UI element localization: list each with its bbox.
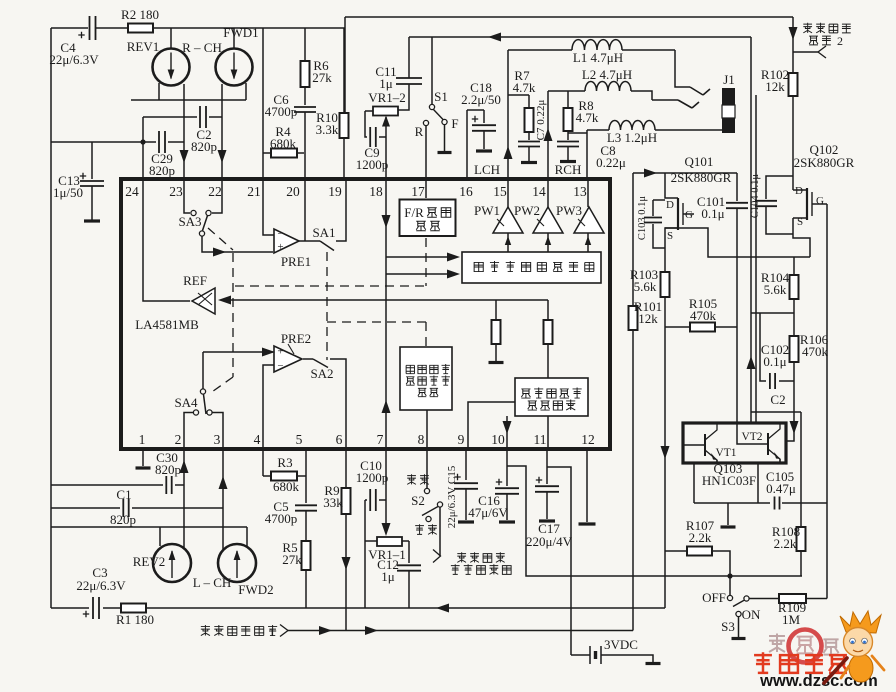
- capacitor C10: [356, 458, 389, 511]
- svg-text:820p: 820p: [149, 163, 175, 178]
- wire pin17 line: [425, 126, 427, 180]
- label C15: [446, 465, 458, 528]
- svg-text:F/R: F/R: [404, 205, 424, 220]
- terminal input 2: [793, 23, 851, 58]
- svg-text:VR1–2: VR1–2: [368, 90, 406, 105]
- wire regulator pin9: [468, 402, 515, 449]
- svg-text:13: 13: [573, 184, 587, 199]
- capacitor C16: [468, 449, 519, 522]
- svg-text:680k: 680k: [270, 136, 297, 151]
- svg-text:14: 14: [532, 184, 546, 199]
- svg-text:22μ/6.3V: 22μ/6.3V: [49, 52, 99, 67]
- svg-text:SA1: SA1: [312, 225, 335, 240]
- wire R102 to Q102: [792, 96, 794, 190]
- svg-text:5.6k: 5.6k: [764, 282, 787, 297]
- label C103: [637, 196, 648, 241]
- resistor R7: [508, 68, 536, 132]
- resistor R105: [665, 296, 737, 332]
- svg-text:27k: 27k: [282, 552, 302, 567]
- IC top pin numbers: [125, 184, 587, 199]
- svg-text:6: 6: [336, 432, 343, 447]
- resistor R4: [263, 124, 304, 158]
- wire R103 cont: [661, 327, 670, 551]
- svg-text:0.22μ: 0.22μ: [596, 155, 626, 170]
- ground C18: [476, 131, 492, 151]
- wire pin21 to PRE1 minus: [263, 180, 274, 235]
- wire pin16 line: [467, 110, 500, 180]
- wire rail B: [755, 95, 757, 423]
- wire left rail: [50, 28, 52, 608]
- svg-text:47μ/6V: 47μ/6V: [468, 505, 508, 520]
- amp PW2: [514, 180, 563, 233]
- svg-text:1M: 1M: [782, 612, 801, 627]
- wire VR1-1 left leg: [364, 500, 366, 608]
- transistor Q102: [793, 142, 855, 228]
- wire pin17 stub: [425, 181, 427, 198]
- wire pin8 line: [426, 449, 428, 488]
- svg-text:L – CH: L – CH: [193, 575, 232, 590]
- resistor R6: [301, 28, 333, 87]
- wire Q101 source: [665, 228, 810, 257]
- capacitor C8: [557, 131, 626, 170]
- resistor R103: [630, 248, 670, 297]
- svg-text:−: −: [277, 360, 283, 372]
- capacitor C18: [461, 80, 501, 131]
- wire SA2 to pin6: [330, 359, 346, 449]
- svg-text:S1: S1: [434, 89, 448, 104]
- svg-text:C2: C2: [770, 392, 785, 407]
- svg-text:1μ: 1μ: [381, 569, 395, 584]
- svg-text:S3: S3: [721, 619, 735, 634]
- capacitor C29: [149, 131, 175, 178]
- wire pin11 jog: [547, 467, 571, 655]
- svg-text:LA4581MB: LA4581MB: [135, 317, 199, 332]
- switch SA2: [310, 359, 333, 381]
- svg-text:+: +: [277, 346, 283, 358]
- svg-text:3: 3: [214, 432, 221, 447]
- svg-text:G: G: [816, 195, 824, 207]
- svg-text:23: 23: [169, 184, 183, 199]
- block audio preamp: [462, 252, 601, 283]
- switch SA1: [312, 225, 335, 251]
- svg-text:D: D: [666, 199, 674, 211]
- svg-text:27k: 27k: [312, 70, 332, 85]
- resistor R101: [629, 299, 663, 631]
- resistor R1: [103, 604, 306, 628]
- IC LA4581MB box: [121, 179, 610, 449]
- transistor Q101: [665, 154, 732, 248]
- ground S3: [732, 617, 746, 639]
- resistor internal 1: [489, 300, 504, 363]
- resistor R107: [665, 518, 730, 576]
- wire motor R-CH feed: [171, 28, 234, 49]
- capacitor C17: [526, 449, 573, 549]
- wire PRE2 out SA2: [303, 358, 313, 360]
- inductor L3: [587, 120, 722, 145]
- resistor R102: [761, 67, 798, 96]
- wire REF input: [218, 296, 548, 305]
- capacitor C15: [454, 449, 478, 522]
- wire input1 bus: [288, 626, 633, 635]
- capacitor C30: [51, 450, 184, 494]
- switch S1: [415, 89, 459, 139]
- svg-text:REF: REF: [183, 273, 207, 288]
- wire pin10 jog: [507, 466, 802, 579]
- svg-text:220μ/4V: 220μ/4V: [526, 534, 573, 549]
- svg-text:18: 18: [369, 184, 383, 199]
- block F/R control: [400, 200, 456, 237]
- wire pin18 internal: [382, 181, 391, 449]
- svg-text:12: 12: [581, 432, 595, 447]
- wire SA3 to PRE1: [202, 236, 273, 257]
- svg-text:4700p: 4700p: [265, 104, 298, 119]
- wire pin22 line: [218, 84, 227, 180]
- svg-text:1μ: 1μ: [379, 76, 393, 91]
- capacitor C3: [51, 565, 126, 619]
- motor REV2: [133, 544, 191, 582]
- svg-text:5.6k: 5.6k: [634, 279, 657, 294]
- terminal input 1: [201, 625, 288, 640]
- svg-text:5: 5: [296, 432, 303, 447]
- wire SA1 to pin19: [336, 180, 346, 241]
- svg-text:F: F: [451, 116, 458, 131]
- wire pin14 line: [544, 91, 553, 180]
- capacitor C5: [265, 499, 317, 526]
- svg-text:1: 1: [269, 625, 275, 639]
- inductor L1: [508, 40, 675, 65]
- wire pin18 line wiper: [382, 116, 390, 181]
- transistor Q103 box: [683, 423, 786, 488]
- svg-text:2: 2: [175, 432, 182, 447]
- resistor R104: [761, 257, 799, 299]
- wire Q102 source: [793, 218, 810, 257]
- svg-text:8: 8: [418, 432, 425, 447]
- wire preamp input 1: [386, 253, 460, 262]
- wire preamp input 2: [386, 270, 460, 279]
- svg-text:20: 20: [286, 184, 300, 199]
- svg-text:7: 7: [377, 432, 384, 447]
- svg-text:PRE2: PRE2: [281, 331, 311, 346]
- svg-text:ON: ON: [742, 607, 761, 622]
- svg-text:17: 17: [411, 184, 425, 199]
- svg-text:21: 21: [247, 184, 261, 199]
- resistor R10: [316, 28, 349, 138]
- wire S2 common: [439, 507, 441, 556]
- svg-text:J1: J1: [723, 72, 735, 87]
- op-amp PRE2: [274, 331, 311, 372]
- svg-text:4.7k: 4.7k: [513, 80, 536, 95]
- resistor R108: [772, 412, 806, 576]
- svg-text:12k: 12k: [765, 79, 785, 94]
- wire C29 link y142: [51, 139, 184, 144]
- svg-text:PW3: PW3: [556, 203, 582, 218]
- wire pin6 line: [342, 514, 351, 630]
- svg-text:OFF: OFF: [702, 590, 726, 605]
- jack J1: [722, 72, 735, 133]
- wire pin2 line: [180, 449, 189, 548]
- dashed SA3 link: [208, 228, 233, 394]
- svg-text:1: 1: [139, 432, 146, 447]
- inductor L2: [548, 67, 652, 100]
- svg-text:470k: 470k: [802, 344, 829, 359]
- wire top bus y17: [345, 17, 793, 113]
- svg-text:2.2k: 2.2k: [774, 536, 797, 551]
- ground S1-F: [438, 125, 452, 153]
- wire regulator pin11: [547, 416, 549, 449]
- svg-text:R3: R3: [277, 455, 292, 470]
- wire SA4 to PRE2 plus: [203, 348, 275, 357]
- svg-text:22μ/6.3V: 22μ/6.3V: [76, 578, 126, 593]
- svg-text:R – CH: R – CH: [182, 40, 222, 55]
- terminal radio supply: [433, 550, 511, 575]
- IC bottom pin numbers: [139, 432, 595, 447]
- wire C2 link y117: [143, 116, 222, 118]
- svg-text:2SK880GR: 2SK880GR: [794, 155, 855, 170]
- wire regulator pin10: [503, 416, 512, 449]
- svg-text:680k: 680k: [273, 479, 300, 494]
- svg-text:PRE1: PRE1: [281, 254, 311, 269]
- resistor R3: [263, 455, 306, 494]
- svg-text:4.7k: 4.7k: [576, 110, 599, 125]
- svg-text:0.1μ: 0.1μ: [763, 354, 786, 369]
- svg-text:33k: 33k: [323, 495, 343, 510]
- wire motor bottoms: [131, 83, 246, 100]
- resistor R109: [749, 594, 827, 627]
- svg-text:2.2μ/50: 2.2μ/50: [461, 92, 501, 107]
- svg-text:11: 11: [534, 432, 547, 447]
- ground pin12: [579, 449, 596, 524]
- wire input2 drop: [789, 17, 798, 73]
- wire internal bus y300: [547, 300, 549, 320]
- label C7: [535, 100, 547, 141]
- switch SA4: [174, 352, 212, 415]
- transistor VT1: [683, 423, 737, 463]
- svg-text:LCH: LCH: [474, 162, 500, 177]
- wire pin15 line: [504, 50, 513, 180]
- svg-text:RCH: RCH: [555, 162, 582, 177]
- capacitor C11: [375, 37, 422, 91]
- svg-text:S2: S2: [411, 493, 425, 508]
- wire bottom bus: [306, 604, 664, 613]
- svg-text:PW2: PW2: [514, 203, 540, 218]
- potentiometer VR1-2: [365, 90, 406, 116]
- svg-text:L2 4.7μH: L2 4.7μH: [582, 67, 632, 82]
- wire Q101 gate feed: [633, 169, 737, 178]
- wire R106 to Q103: [786, 362, 799, 441]
- dashed SA1-SA2 link: [326, 252, 328, 360]
- svg-text:SA2: SA2: [310, 366, 333, 381]
- transistor VT2: [737, 423, 780, 463]
- wire VT emitters: [694, 459, 780, 503]
- motor REV1: [127, 39, 190, 86]
- svg-text:1200p: 1200p: [356, 157, 389, 172]
- resistor R2: [121, 7, 159, 33]
- capacitor C12: [377, 541, 421, 608]
- wire pin5 line: [305, 449, 307, 503]
- switch SA3: [178, 180, 222, 236]
- svg-text:G: G: [685, 209, 693, 221]
- svg-text:12k: 12k: [638, 311, 658, 326]
- capacitor C4: [49, 16, 99, 67]
- potentiometer VR1-1: [365, 537, 409, 562]
- svg-text:R: R: [415, 124, 424, 139]
- svg-text:HN1C03F: HN1C03F: [702, 473, 756, 488]
- svg-text:22: 22: [208, 184, 222, 199]
- wire pin20 line: [304, 112, 306, 180]
- wire pin19 line: [343, 138, 345, 180]
- svg-text:2.2k: 2.2k: [689, 530, 712, 545]
- wire pin7 line: [382, 449, 391, 536]
- svg-text:820p: 820p: [155, 462, 181, 477]
- wire S1 common: [431, 37, 433, 104]
- resistor R106: [790, 332, 829, 362]
- svg-text:4: 4: [254, 432, 261, 447]
- dashed F/R link: [233, 238, 426, 286]
- svg-text:Q101: Q101: [685, 154, 714, 169]
- wire C11 to VR1-2: [398, 84, 409, 110]
- svg-text:470k: 470k: [690, 308, 717, 323]
- capacitor C13: [53, 142, 104, 200]
- wire rail A: [747, 37, 756, 423]
- svg-text:4700p: 4700p: [265, 511, 298, 526]
- capacitor C6: [265, 87, 316, 119]
- svg-text:REV1: REV1: [127, 39, 160, 54]
- wire PW feeds: [505, 233, 591, 252]
- svg-text:D: D: [795, 185, 803, 197]
- svg-text:1μ/50: 1μ/50: [53, 185, 83, 200]
- svg-text:2: 2: [837, 34, 843, 48]
- wire right rail: [826, 204, 828, 599]
- svg-text:REV2: REV2: [133, 554, 166, 569]
- svg-text:L3 1.2μH: L3 1.2μH: [607, 130, 657, 145]
- svg-text:24: 24: [125, 184, 139, 199]
- svg-text:0.1μ: 0.1μ: [701, 206, 724, 221]
- svg-text:PW1: PW1: [474, 203, 500, 218]
- label C104: [750, 174, 761, 219]
- svg-text:R1 180: R1 180: [116, 612, 154, 627]
- svg-text:10: 10: [491, 432, 505, 447]
- svg-text:+: +: [277, 241, 283, 253]
- svg-text:C103 0.1μ: C103 0.1μ: [637, 196, 648, 241]
- ground pin1: [136, 449, 151, 468]
- capacitor C7: [518, 132, 540, 147]
- wire SA4 contacts: [184, 413, 223, 450]
- block preamp cutoff: [400, 347, 452, 410]
- wire PRE1 out SA1: [299, 240, 320, 242]
- svg-text:9: 9: [458, 432, 465, 447]
- wire PRE2 minus to pin4: [263, 365, 274, 449]
- svg-text:R2 180: R2 180: [121, 7, 159, 22]
- svg-text:VT2: VT2: [741, 431, 762, 443]
- switch S3: [702, 576, 761, 634]
- wire R101 line: [632, 173, 634, 306]
- resistor internal 2: [544, 320, 553, 378]
- wire rail A jog: [751, 411, 801, 413]
- resistor R5: [282, 511, 310, 608]
- ground Q103: [721, 503, 736, 527]
- svg-text:1200p: 1200p: [356, 470, 389, 485]
- svg-text:S: S: [667, 230, 673, 242]
- capacitor C103: [644, 200, 665, 248]
- resistor R9: [323, 449, 350, 514]
- capacitor C104: [755, 176, 793, 234]
- watermark dzsc logo: [754, 611, 884, 690]
- capacitor C1: [51, 487, 223, 527]
- svg-text:820p: 820p: [110, 512, 136, 527]
- capacitor C101: [697, 173, 748, 423]
- svg-text:SA4: SA4: [174, 395, 198, 410]
- svg-text:0.47μ: 0.47μ: [766, 481, 796, 496]
- svg-text:820p: 820p: [191, 139, 217, 154]
- resistor R8: [564, 91, 599, 131]
- op-amp PRE1: [274, 228, 311, 269]
- wire R103 to bus: [664, 551, 665, 608]
- svg-text:2SK880GR: 2SK880GR: [671, 170, 732, 185]
- svg-text:−: −: [277, 228, 283, 240]
- wire pin4 stub: [262, 449, 264, 476]
- dashed SA2 box link: [327, 322, 426, 346]
- svg-text:16: 16: [459, 184, 473, 199]
- wire cutoff pin8: [426, 410, 428, 449]
- ground C8: [555, 147, 582, 177]
- svg-text:L1 4.7μH: L1 4.7μH: [573, 50, 623, 65]
- wire pin24 line: [142, 117, 144, 180]
- svg-text:C1: C1: [116, 487, 131, 502]
- battery 3VDC: [571, 637, 661, 664]
- svg-text:C104 0.1μ: C104 0.1μ: [750, 174, 761, 219]
- amp PW3: [556, 180, 604, 233]
- capacitor C105: [766, 469, 827, 510]
- svg-text:15: 15: [493, 184, 507, 199]
- wire pin20 to PRE1 out: [304, 180, 306, 241]
- wire pin13 line: [568, 130, 587, 180]
- wire REV2 stubs: [160, 527, 247, 546]
- wire motor bus y527: [51, 526, 247, 528]
- amp PW1: [474, 180, 523, 233]
- jack J1 contacts: [652, 50, 710, 108]
- svg-text:3VDC: 3VDC: [604, 637, 638, 652]
- svg-text:19: 19: [328, 184, 342, 199]
- wire ctl bus y37: [409, 33, 751, 42]
- wire R104 bottom: [751, 299, 794, 336]
- svg-text:22μ/6.3V C15: 22μ/6.3V C15: [446, 465, 458, 528]
- wire pin23 line: [180, 84, 189, 180]
- svg-text:3.3k: 3.3k: [316, 122, 339, 137]
- svg-text:C7 0.22μ: C7 0.22μ: [535, 100, 547, 141]
- ground C13: [84, 186, 100, 221]
- svg-text:FWD2: FWD2: [238, 582, 273, 597]
- motor FWD2: [193, 544, 274, 597]
- svg-text:VT1: VT1: [715, 447, 736, 459]
- svg-text:FWD1: FWD1: [223, 25, 258, 40]
- wire pin3 line: [219, 449, 228, 549]
- wire top bus y28: [51, 27, 345, 29]
- capacitor C9: [356, 111, 389, 172]
- capacitor C102: [760, 313, 794, 407]
- block regulator: [515, 378, 588, 416]
- switch S2: [407, 474, 442, 534]
- label LA4581MB: [135, 317, 199, 332]
- svg-text:SA3: SA3: [178, 214, 201, 229]
- motor FWD1: [182, 25, 259, 86]
- capacitor C2: [191, 106, 217, 154]
- amp REF: [143, 180, 215, 314]
- ground C7: [521, 147, 537, 163]
- wire pin21 line: [262, 28, 264, 180]
